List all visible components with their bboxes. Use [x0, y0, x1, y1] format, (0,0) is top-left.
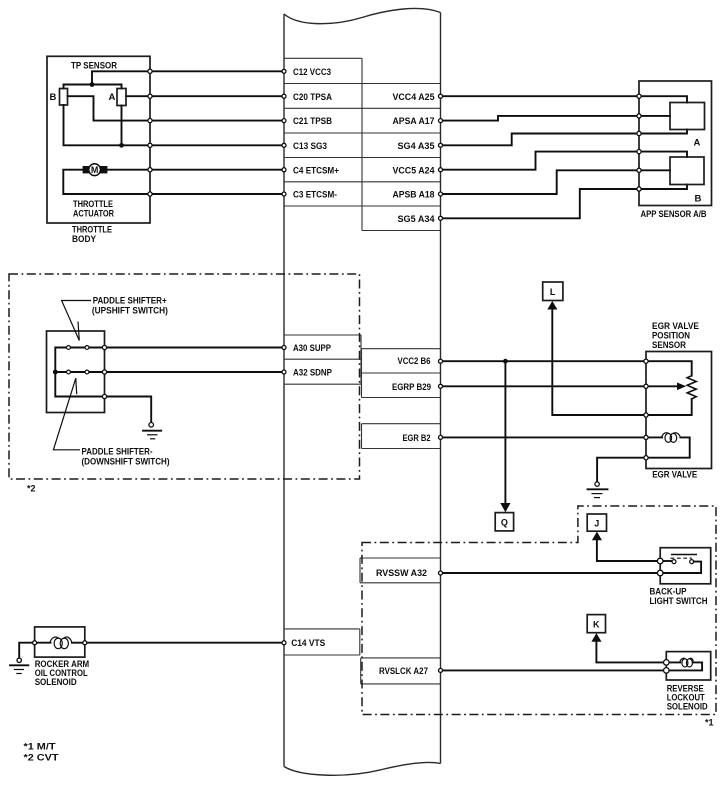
coil rocker arm oil control solenoid [50, 637, 72, 649]
wire SG3 (sensor ground to C13) [64, 105, 285, 145]
wire solenoid loop [666, 662, 702, 670]
arrow into K [591, 633, 601, 642]
svg-text:A: A [109, 92, 116, 103]
APP sensor element B [670, 157, 704, 185]
wire ETCSM+ (motor to C4) [107, 169, 284, 171]
connector circles back-up switch [657, 558, 663, 576]
connector circle C14 VTS on ECM [282, 641, 286, 645]
wire SUPP (upshift switch to A30) [55, 348, 284, 373]
svg-text:BACK-UP: BACK-UP [650, 587, 687, 597]
resistor EGR position sensor [687, 376, 696, 399]
svg-text:EGRP B29: EGRP B29 [392, 382, 431, 393]
wire A top [121, 85, 123, 89]
wire TPSA (A wiper to C20) [126, 95, 284, 97]
wire solenoid to K [596, 641, 666, 662]
wire APP A wiper [639, 115, 670, 117]
motor throttle actuator brush right [100, 166, 107, 173]
wire APP A supply [639, 96, 687, 102]
connector circles rocker solenoid [33, 641, 87, 645]
wire EGR valve loop [646, 437, 690, 457]
svg-text:A30 SUPP: A30 SUPP [293, 343, 332, 354]
wire APP A ground [639, 130, 687, 134]
pin group 3 box (VCC2/EGRP) [362, 349, 441, 398]
ECM column bottom torn edge [284, 762, 441, 775]
svg-text:RVSSW A32: RVSSW A32 [376, 568, 427, 579]
wire APSB A18 to APP sensor [441, 170, 640, 194]
pin EGR B2 box [362, 424, 441, 449]
svg-text:C14 VTS: C14 VTS [291, 638, 325, 649]
label PADDLE SHIFTER- leader [53, 378, 80, 450]
wire back-up switch return [660, 562, 701, 573]
wire VCC3 feed [92, 71, 284, 84]
svg-text:LIGHT SWITCH: LIGHT SWITCH [650, 596, 708, 606]
svg-text:*2: *2 [27, 484, 36, 494]
wire VCC2 B6 to EGR position sensor [441, 360, 647, 362]
pin group 2 box (A30/A32) [284, 335, 361, 384]
svg-text:EGR VALVE: EGR VALVE [652, 321, 699, 331]
back-up light switch box [660, 548, 711, 584]
connector circles on APP sensor edge [637, 94, 641, 191]
svg-text:C13 SG3: C13 SG3 [293, 141, 327, 152]
ECM connector column right edge [440, 13, 442, 764]
wire EGR coil feed [646, 436, 662, 438]
junction paddle common [53, 370, 58, 375]
pin RVSSW A32 box [360, 558, 441, 583]
rocker arm oil control solenoid box [35, 627, 85, 657]
connector circles on throttle body edge [148, 69, 152, 196]
connector circles on ECM left edge (top group) [282, 69, 286, 196]
arrow into J [592, 532, 602, 541]
wire RVSLCK A27 to reverse lockout solenoid [441, 669, 667, 671]
ground (paddle shifter) [143, 423, 161, 439]
wire APP B ground [639, 185, 687, 190]
svg-text:SENSOR: SENSOR [652, 340, 686, 350]
throttle body box [47, 56, 150, 223]
paddle shifter switch box [47, 331, 105, 413]
node J box [587, 514, 606, 531]
motor throttle actuator brush left [83, 166, 90, 173]
svg-text:SG5 A34: SG5 A34 [398, 214, 436, 225]
dashed MT option box *1 [362, 506, 716, 715]
connector circles on paddle switch box edge [102, 345, 106, 398]
wire SDNP (downshift switch to A32) [55, 371, 284, 373]
pin RVSLCK A27 box [361, 658, 441, 684]
connector circle RVSSW on ECM [439, 571, 443, 575]
reverse lockout solenoid box [666, 652, 710, 680]
junction VCC2 branch [503, 359, 508, 364]
connector circles on ECM right edge (EGR group) [439, 359, 443, 439]
connector circles on EGR box edge [644, 359, 648, 460]
svg-text:APSB A18: APSB A18 [393, 190, 435, 201]
downshift switch terminals [67, 370, 71, 374]
svg-text:BODY: BODY [72, 234, 96, 244]
svg-text:C4 ETCSM+: C4 ETCSM+ [293, 165, 339, 176]
ground (rocker arm solenoid) [10, 658, 28, 673]
wire VCC4 A25 to APP sensor [441, 95, 640, 97]
motor throttle actuator [89, 164, 101, 176]
upshift switch terminals [67, 346, 71, 350]
APP sensor element A [670, 103, 705, 130]
wire TP sensor supply (to C12 VCC3) [64, 85, 122, 89]
wire VCC5 A24 to APP sensor [441, 152, 640, 170]
wire EGR B2 to EGR valve [441, 436, 647, 438]
svg-text:A: A [694, 138, 701, 149]
ECM column top torn edge [284, 8, 441, 23]
ground (EGR valve) [588, 482, 608, 498]
wire A bottom [121, 106, 123, 146]
wire TPSB (B wiper to C21) [68, 96, 285, 120]
svg-text:J: J [594, 518, 599, 528]
svg-text:VCC4 A25: VCC4 A25 [393, 92, 436, 103]
svg-text:SG4 A35: SG4 A35 [398, 141, 436, 152]
svg-text:(DOWNSHIFT SWITCH): (DOWNSHIFT SWITCH) [82, 456, 170, 466]
svg-text:SOLENOID: SOLENOID [35, 677, 77, 687]
svg-text:Q: Q [501, 517, 508, 527]
node Q box [495, 513, 513, 531]
junction TP sensor ground [119, 143, 124, 148]
wire EGR valve ground [597, 458, 646, 482]
svg-text:A32 SDNP: A32 SDNP [293, 368, 333, 379]
wire EGR sensor top [646, 361, 692, 376]
connector circles reverse lockout solenoid [664, 660, 670, 674]
svg-text:POSITION: POSITION [652, 330, 690, 340]
wire coil feed [35, 642, 51, 644]
node L box [543, 282, 563, 301]
back-up light switch contacts [660, 555, 697, 564]
wire EGR sensor bottom to L [552, 309, 691, 415]
svg-text:PADDLE SHIFTER-: PADDLE SHIFTER- [82, 447, 153, 457]
svg-text:ACTUATOR: ACTUATOR [73, 208, 114, 218]
APP sensor box [639, 81, 712, 206]
svg-text:*2 CVT: *2 CVT [24, 752, 60, 762]
wire SG4 A35 to APP sensor [441, 134, 640, 146]
wire coil out [72, 642, 85, 644]
svg-text:*1: *1 [705, 718, 714, 728]
svg-text:K: K [593, 620, 600, 630]
svg-text:C3 ETCSM-: C3 ETCSM- [293, 190, 337, 201]
svg-text:B: B [695, 194, 702, 205]
connector circle RVSLCK on ECM [439, 668, 443, 672]
svg-text:RVSLCK A27: RVSLCK A27 [379, 666, 428, 677]
junction TP sensor supply [90, 82, 95, 87]
arrow into Q [500, 503, 510, 512]
wire RVSSW A32 to back-up light switch [441, 572, 661, 574]
resistor B (TP sensor) [60, 89, 68, 106]
svg-text:EGR B2: EGR B2 [403, 433, 431, 444]
svg-text:C12 VCC3: C12 VCC3 [293, 67, 331, 78]
wire solenoid coil feed [666, 661, 680, 663]
wire EGRP B29 to EGR position sensor wiper [441, 385, 647, 387]
svg-text:APSA A17: APSA A17 [393, 116, 435, 127]
EGR valve assembly box [646, 352, 712, 469]
connector circles on ECM left edge (A30/A32) [282, 346, 286, 375]
wire APP B supply [639, 152, 687, 157]
svg-text:TP SENSOR: TP SENSOR [71, 61, 117, 72]
coil reverse lockout solenoid [680, 658, 693, 667]
ECM connector column left edge [283, 14, 285, 767]
wire VCC2 branch to Q [504, 361, 506, 504]
label PADDLE SHIFTER+ leader [62, 301, 91, 341]
wire APP B wiper [639, 169, 670, 171]
svg-text:VCC5 A24: VCC5 A24 [393, 165, 436, 176]
svg-text:C20 TPSA: C20 TPSA [293, 92, 332, 103]
svg-text:*1 M/T: *1 M/T [24, 742, 57, 752]
dashed CVT option box *2 [9, 274, 360, 479]
svg-text:B: B [50, 92, 57, 103]
resistor A (TP sensor) [117, 89, 126, 106]
svg-text:SOLENOID: SOLENOID [667, 701, 708, 711]
wire back-up switch to J [597, 540, 660, 562]
coil EGR valve solenoid [662, 433, 681, 443]
wire paddle common to ground [55, 372, 151, 422]
svg-text:APP SENSOR A/B: APP SENSOR A/B [641, 209, 707, 219]
connector circles on ECM right edge (top group) [439, 94, 443, 220]
svg-text:C21 TPSB: C21 TPSB [293, 116, 332, 127]
wire VTS (rocker solenoid to C14) [85, 642, 284, 644]
svg-text:M: M [91, 165, 99, 175]
arrow into L [547, 301, 557, 310]
svg-text:VCC2 B6: VCC2 B6 [398, 356, 431, 367]
svg-text:(UPSHIFT SWITCH): (UPSHIFT SWITCH) [92, 306, 168, 316]
svg-text:PADDLE SHIFTER+: PADDLE SHIFTER+ [93, 296, 167, 306]
node K box [587, 615, 605, 633]
wire rocker solenoid to ground [19, 643, 34, 658]
pin C14 VTS box [284, 629, 360, 655]
wire SG5 A34 to APP sensor [441, 189, 640, 218]
svg-text:L: L [550, 287, 556, 297]
pin group 1 box lines [284, 58, 441, 230]
wire ETCSM- (motor to C3) [63, 170, 284, 194]
svg-text:EGR VALVE: EGR VALVE [652, 469, 697, 479]
wire APSA A17 to APP sensor [441, 116, 640, 121]
wiper arrow EGR sensor [646, 385, 679, 387]
